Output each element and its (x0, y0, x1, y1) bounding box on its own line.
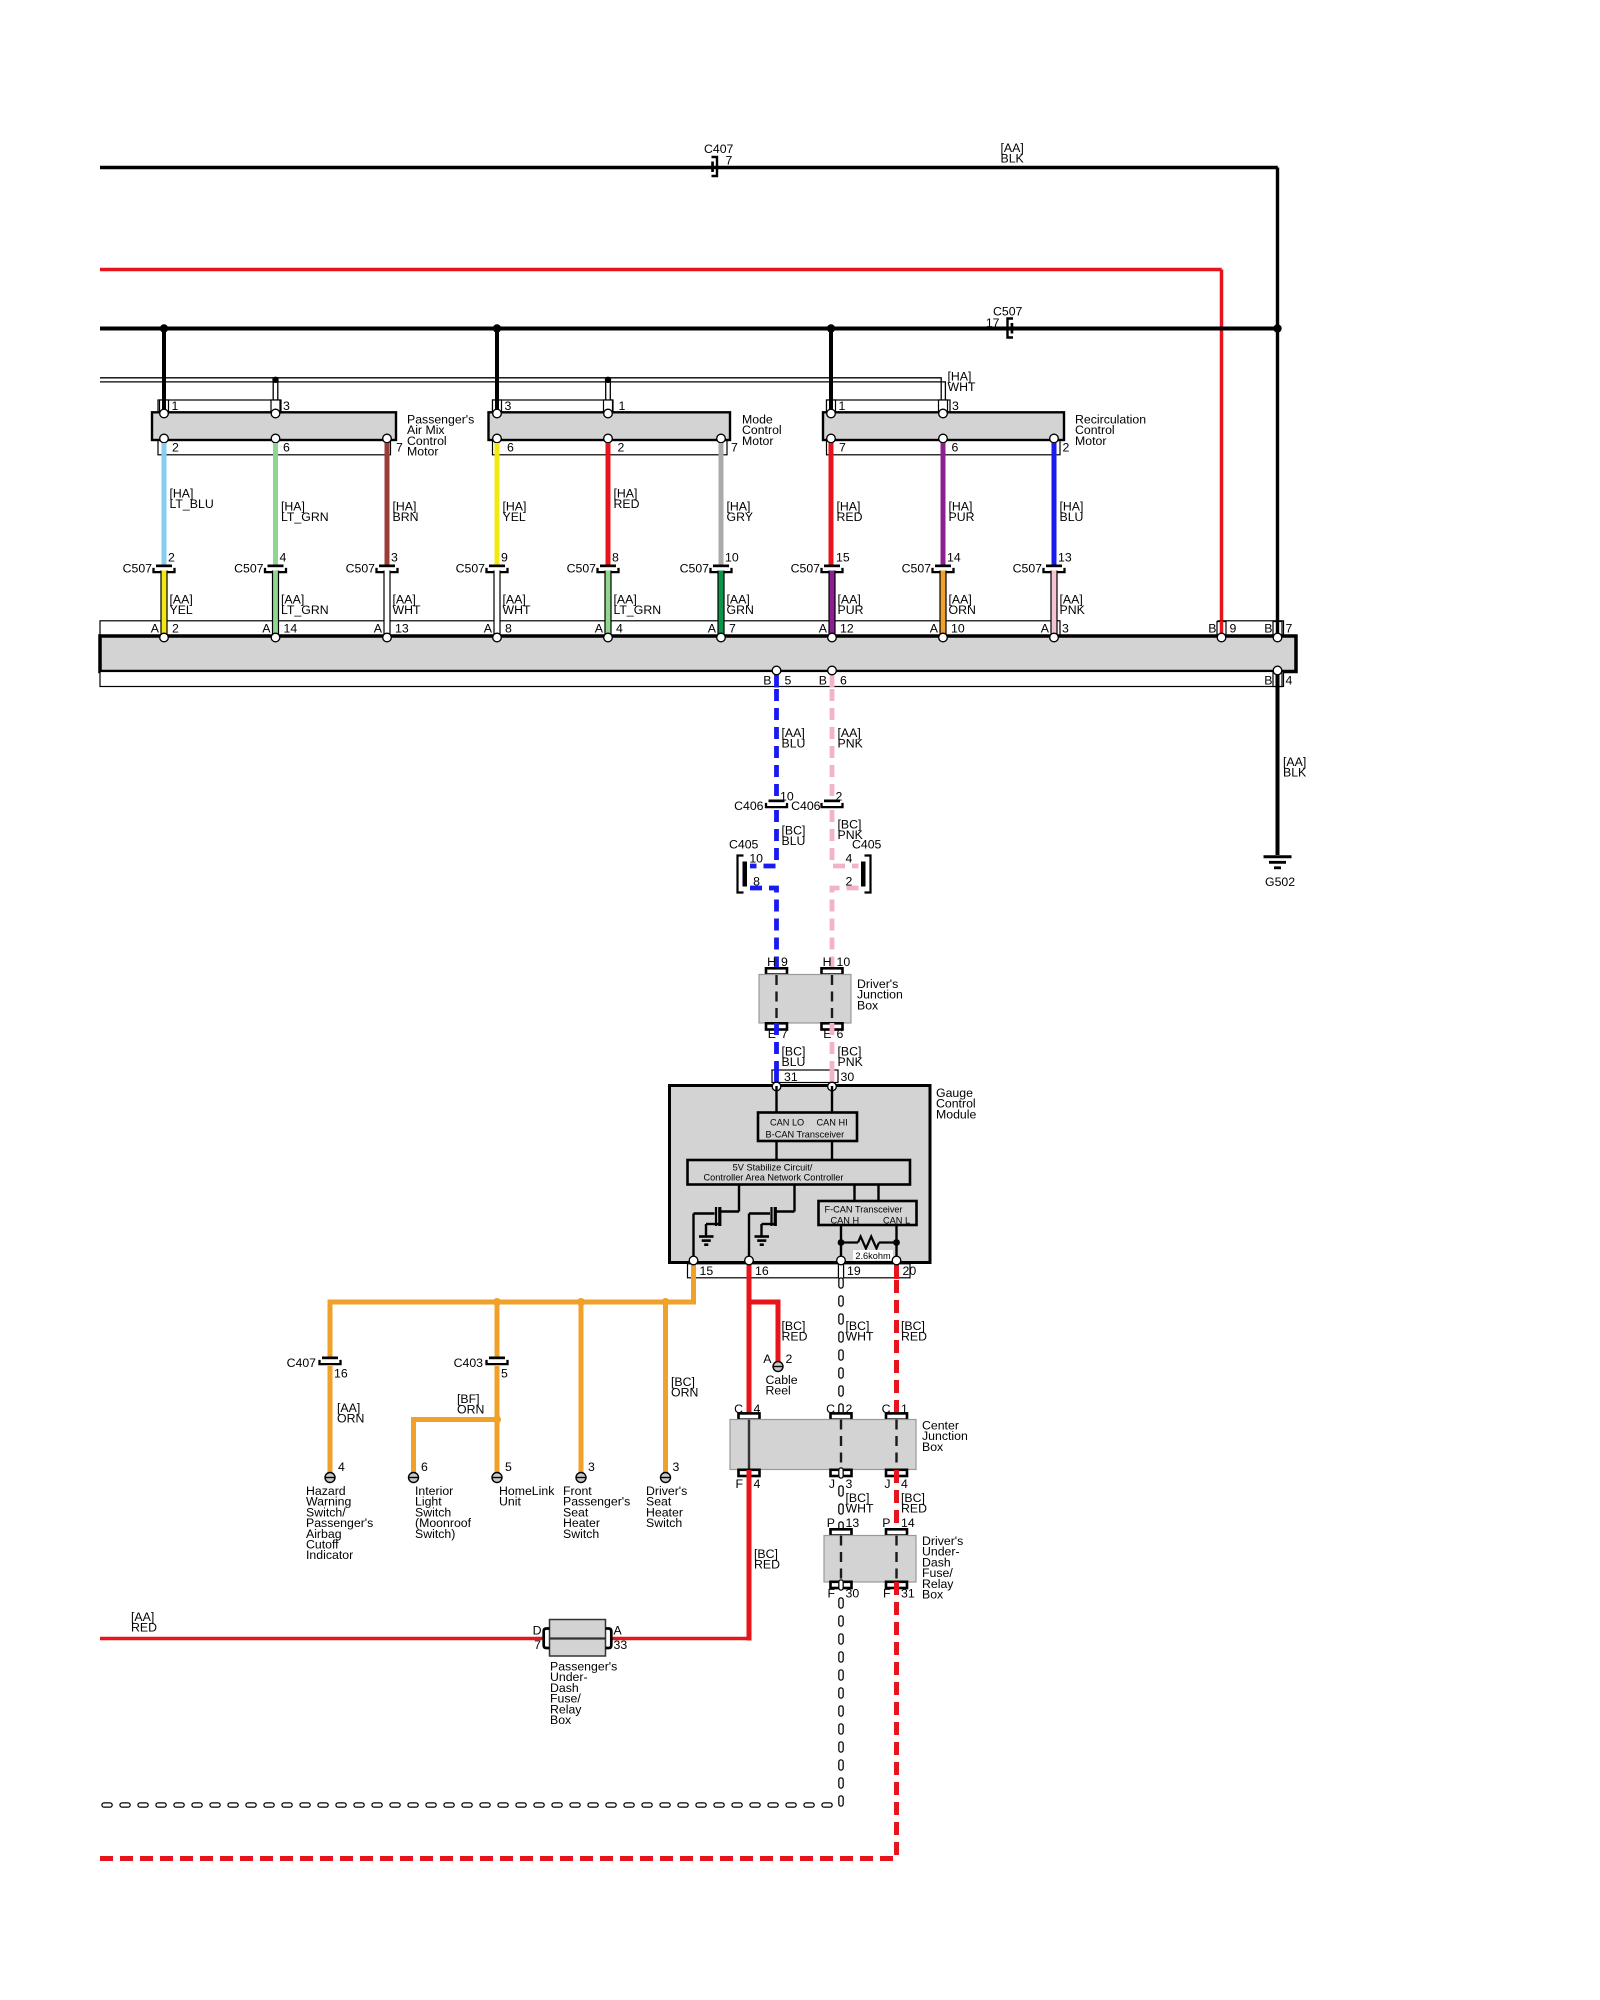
svg-text:PNK: PNK (1060, 603, 1086, 617)
motor M3 top pin strip (827, 400, 951, 413)
svg-text:10: 10 (951, 622, 965, 636)
svg-text:C406: C406 (791, 799, 821, 813)
motor M1 pin 1 rect (160, 400, 169, 413)
svg-text:B: B (1208, 622, 1216, 636)
motor pin circles (160, 409, 169, 418)
wire [BC] RED dashed J4 to P14 (894, 1470, 899, 1536)
wire B-CAN to 5V block right (831, 1141, 833, 1160)
wire [AA] PNK from C507 to bar pin A3 (1050, 571, 1057, 638)
svg-text:C: C (882, 1402, 891, 1416)
wire [AA] GRN from C507 to bar pin A7 (717, 571, 724, 638)
svg-text:A: A (595, 622, 604, 636)
terminal HomeLink pin 5 (492, 1473, 502, 1483)
connector C507 pin 2 (156, 565, 172, 568)
svg-text:13: 13 (395, 622, 409, 636)
svg-text:J: J (829, 1477, 835, 1491)
internal circuit D7-A33 (550, 1637, 605, 1639)
wire [AA] LT_GRN from C507 to bar pin A4 (604, 571, 611, 638)
svg-text:4: 4 (754, 1477, 761, 1491)
svg-text:Unit: Unit (499, 1495, 521, 1509)
pin tab C4 (739, 1413, 760, 1419)
svg-text:1: 1 (619, 399, 626, 413)
svg-text:B: B (1264, 622, 1272, 636)
svg-text:C507: C507 (791, 562, 821, 576)
svg-text:ORN: ORN (949, 603, 976, 617)
junction dot orange moonroof branch (493, 1416, 501, 1424)
connector C407 pin 7 inline on black feed (712, 157, 718, 176)
svg-text:PUR: PUR (838, 603, 864, 617)
wire black feed vertical drop to pin B7 (1276, 168, 1279, 638)
svg-text:C507: C507 (680, 562, 710, 576)
pin tab P13 (831, 1529, 852, 1535)
ground Q1 (699, 1235, 714, 1238)
svg-text:A: A (614, 1624, 623, 1638)
wire [BC] BLU dashed to C405 (750, 810, 777, 866)
svg-text:30: 30 (841, 1070, 855, 1084)
svg-text:C507: C507 (456, 562, 486, 576)
svg-text:3: 3 (673, 1460, 680, 1474)
svg-text:30: 30 (846, 1587, 860, 1601)
wire [BF] ORN below C403 (495, 1366, 500, 1473)
svg-text:Module: Module (936, 1107, 976, 1121)
svg-text:C507: C507 (234, 562, 264, 576)
svg-text:C507: C507 (346, 562, 376, 576)
svg-text:B: B (1264, 674, 1272, 688)
svg-text:BRN: BRN (393, 510, 419, 524)
svg-text:1: 1 (901, 1402, 908, 1416)
svg-text:C: C (734, 1402, 743, 1416)
svg-text:C406: C406 (734, 799, 764, 813)
junction dot thin pair to motor2 pin1 (605, 377, 611, 383)
wire [AA] RED feed (100, 268, 1222, 272)
svg-text:6: 6 (421, 1460, 428, 1474)
svg-text:Motor: Motor (1075, 434, 1106, 448)
wire [BC] PNK dashed E6 to module pin 30 (830, 1023, 835, 1068)
wire 5V block to Q1 drain (738, 1185, 740, 1212)
wire [BC] ORN drop to driver seat heater switch (663, 1302, 668, 1473)
module bottom pin strip (688, 1264, 911, 1278)
junction dot orange at driver seat heater drop (662, 1298, 670, 1306)
wire [BC] WHT dashed F30 off-page (102, 1582, 841, 1805)
svg-text:GRN: GRN (727, 603, 754, 617)
svg-text:YEL: YEL (503, 510, 526, 524)
connector C507 pin 15 (824, 565, 840, 568)
terminal driver seat heater pin 3 (661, 1473, 671, 1483)
svg-text:7: 7 (731, 441, 738, 455)
motor M2 bottom pin strip (493, 440, 728, 455)
wire [AA] BLU dashed from B5 (774, 671, 779, 688)
svg-text:14: 14 (947, 551, 961, 565)
motor M3 pin 1 rect (827, 400, 836, 413)
svg-text:C405: C405 (852, 838, 882, 852)
svg-text:ORN: ORN (457, 1403, 484, 1417)
B-CAN Transceiver block U1 (758, 1113, 857, 1142)
wire [AA] RED bottom feed (100, 1637, 544, 1641)
pin tab E7 (766, 1023, 787, 1029)
svg-text:3: 3 (283, 399, 290, 413)
svg-text:PUR: PUR (949, 510, 975, 524)
svg-text:WHT: WHT (393, 603, 421, 617)
svg-text:PNK: PNK (838, 737, 864, 751)
pin rect B9 (1217, 622, 1226, 636)
motor M1 bottom pin strip (158, 440, 391, 455)
ground G502 (1264, 855, 1292, 858)
svg-text:2: 2 (1063, 441, 1070, 455)
svg-text:5: 5 (785, 674, 792, 688)
transistor Q1 (694, 1212, 715, 1214)
internal dashed circuit C2-J3 (840, 1420, 842, 1470)
wire 5V block to F-CAN left (853, 1185, 855, 1202)
svg-text:Box: Box (922, 1440, 944, 1454)
connector C507 pin 17 inline on ground bus (1008, 319, 1014, 338)
svg-text:6: 6 (952, 441, 959, 455)
connector C507 pin 10 (713, 565, 729, 568)
wire pin30 to B-CAN (831, 1086, 833, 1113)
wire [AA] PNK dashed from B6 (830, 671, 835, 688)
svg-text:15: 15 (700, 1264, 714, 1278)
svg-text:8: 8 (612, 551, 619, 565)
svg-text:6: 6 (840, 674, 847, 688)
svg-text:10: 10 (837, 955, 851, 969)
wire pin 16 to Q2 gate (748, 1214, 750, 1262)
svg-text:2: 2 (836, 790, 843, 804)
svg-text:2: 2 (172, 441, 179, 455)
connector C507 pin 9 (489, 565, 505, 568)
junction dot bus drop motor1 (160, 324, 168, 332)
motor M1 Passenger's Air Mix Control Motor body (152, 412, 396, 440)
svg-text:2: 2 (172, 622, 179, 636)
bar pin circles bottom row (772, 666, 781, 675)
wire [AA] BLK top feed (100, 166, 1278, 169)
motor M1 pin 3 rect (271, 400, 280, 413)
svg-text:4: 4 (1286, 674, 1293, 688)
svg-text:WHT: WHT (846, 1330, 874, 1344)
svg-text:B: B (763, 674, 771, 688)
internal dashed circuit P13-F30 (840, 1536, 842, 1583)
pin tab F4 (739, 1470, 760, 1476)
pin tab H10 (822, 968, 843, 974)
svg-text:WHT: WHT (846, 1502, 874, 1516)
svg-text:1: 1 (839, 399, 846, 413)
wire red stub pin 16 (747, 1262, 752, 1279)
module pin circles bottom (689, 1256, 698, 1265)
svg-text:A: A (151, 622, 160, 636)
svg-text:Motor: Motor (742, 434, 773, 448)
svg-text:4: 4 (280, 551, 287, 565)
wire [HA] GRY (719, 443, 724, 565)
connector C407 pin 16 (322, 1357, 338, 1360)
connector C507 pin 13 (1046, 565, 1062, 568)
pin tab F30 (831, 1582, 852, 1588)
pin tab F31 (886, 1582, 907, 1588)
svg-text:RED: RED (131, 1621, 157, 1635)
wire B-CAN to 5V block left (775, 1141, 777, 1160)
wire [HA] YEL (495, 443, 500, 565)
svg-text:Box: Box (550, 1713, 572, 1727)
svg-text:A: A (484, 622, 493, 636)
svg-text:A: A (763, 1352, 772, 1366)
svg-text:13: 13 (1058, 551, 1072, 565)
wire CAN H to pin 19 (840, 1225, 842, 1261)
svg-text:A: A (819, 622, 828, 636)
svg-text:WHT: WHT (503, 603, 531, 617)
transistor Q2 (749, 1212, 770, 1214)
internal circuit C4-F4 (748, 1420, 750, 1470)
svg-text:2: 2 (618, 441, 625, 455)
svg-text:WHT: WHT (948, 380, 976, 394)
svg-text:3: 3 (391, 551, 398, 565)
svg-text:7: 7 (1286, 622, 1293, 636)
svg-text:9: 9 (1230, 622, 1237, 636)
wire CAN L to pin 20 (895, 1225, 897, 1261)
svg-text:Indicator: Indicator (306, 1548, 353, 1562)
svg-text:10: 10 (749, 852, 763, 866)
terminal hazard switch pin 4 (325, 1473, 335, 1483)
wire thin pair drop to motor2 pin1 (605, 378, 607, 400)
svg-text:Switch): Switch) (415, 1527, 455, 1541)
svg-text:C507: C507 (902, 562, 932, 576)
svg-text:CAN HI: CAN HI (817, 1118, 848, 1128)
junction dot ground bus at right vertical (1273, 324, 1281, 332)
svg-text:4: 4 (754, 1402, 761, 1416)
pin tab E6 (822, 1023, 843, 1029)
internal dashed circuit H9-E7 (775, 975, 777, 1023)
svg-text:A: A (708, 622, 717, 636)
svg-text:RED: RED (754, 1558, 780, 1572)
motor M1 top pin strip (158, 400, 281, 413)
svg-text:C507: C507 (567, 562, 597, 576)
svg-text:C507: C507 (1013, 562, 1043, 576)
wire pin31 to B-CAN (775, 1086, 777, 1113)
Gauge Control Module body (670, 1086, 931, 1263)
svg-text:14: 14 (284, 622, 298, 636)
svg-text:LT_GRN: LT_GRN (281, 510, 329, 524)
pin tab J4 (886, 1470, 907, 1476)
svg-text:3: 3 (588, 1460, 595, 1474)
junction dot thin pair to motor1 pin3 (272, 377, 278, 383)
svg-text:6: 6 (507, 441, 514, 455)
wire pin 15 to Q1 gate (692, 1214, 694, 1262)
svg-text:LT_BLU: LT_BLU (170, 497, 214, 511)
connector C405 left (pins 10/8) (738, 856, 744, 893)
svg-text:6: 6 (837, 1027, 844, 1041)
motor M2 pin 1 rect (604, 400, 613, 413)
wire bus drop to motor1 pin1 (162, 330, 166, 413)
wire red feed vertical drop to pin B9 (1220, 270, 1224, 638)
svg-text:BLK: BLK (1001, 152, 1025, 166)
motor M2 pin 3 rect (493, 400, 502, 413)
pin tab P14 (886, 1529, 907, 1535)
svg-text:C: C (826, 1402, 835, 1416)
svg-text:4: 4 (901, 1477, 908, 1491)
svg-text:BLU: BLU (1060, 510, 1084, 524)
wire [AA] WHT from C507 to bar pin A8 (493, 571, 500, 638)
svg-text:4: 4 (846, 852, 853, 866)
wire [BC] BLU dashed from C405 to H9 (750, 888, 777, 975)
wire orange branch to interior light switch (414, 1420, 498, 1473)
svg-text:LT_GRN: LT_GRN (614, 603, 662, 617)
svg-text:RED: RED (901, 1502, 927, 1516)
svg-text:13: 13 (846, 1516, 860, 1530)
pin rect B7 (1273, 622, 1282, 636)
svg-text:20: 20 (903, 1264, 917, 1278)
Passenger's Under-Dash Fuse/Relay Box body (550, 1620, 606, 1657)
connector C507 pin 14 (935, 565, 951, 568)
wire [BC] WHT dashed pin 19 to C2 (838, 1280, 844, 1419)
wire 5V block to F-CAN right (877, 1185, 879, 1202)
svg-text:J: J (884, 1477, 890, 1491)
svg-text:2: 2 (846, 1402, 853, 1416)
svg-text:19: 19 (847, 1264, 861, 1278)
svg-text:RED: RED (901, 1330, 927, 1344)
wire orange drop to C403 (495, 1302, 500, 1357)
wire pink stub into pin 30 (830, 1068, 835, 1086)
svg-text:10: 10 (725, 551, 739, 565)
ground Q2 (755, 1235, 770, 1238)
motor M3 pin 3 rect (939, 400, 948, 413)
wire black ground bus (100, 327, 1278, 331)
svg-text:7: 7 (839, 441, 846, 455)
svg-text:RED: RED (782, 1330, 808, 1344)
pin tab C1 (886, 1413, 907, 1419)
svg-text:C405: C405 (729, 838, 759, 852)
terminal front seat heater pin 3 (576, 1473, 586, 1483)
svg-text:31: 31 (784, 1070, 798, 1084)
svg-text:5: 5 (501, 1367, 508, 1381)
svg-text:Switch: Switch (563, 1527, 599, 1541)
wire [BC] BLU dashed E7 to module pin 31 (774, 1023, 779, 1068)
module top pin strip (772, 1070, 838, 1083)
svg-text:2.6kohm: 2.6kohm (855, 1251, 891, 1261)
svg-text:C507: C507 (123, 562, 153, 576)
svg-text:5V Stabilize Circuit/: 5V Stabilize Circuit/ (733, 1163, 813, 1173)
svg-text:F: F (827, 1587, 835, 1601)
wire blue stub into pin 31 (774, 1068, 779, 1086)
svg-text:3: 3 (846, 1477, 853, 1491)
svg-text:H: H (767, 955, 776, 969)
svg-text:ORN: ORN (671, 1386, 698, 1400)
bar pin circles top row (160, 633, 169, 642)
svg-text:BLK: BLK (1283, 766, 1307, 780)
A-row pin band of dash harness connector (100, 621, 1060, 636)
svg-text:16: 16 (334, 1367, 348, 1381)
wire black through pin B4 (1276, 671, 1280, 688)
svg-text:RED: RED (614, 497, 640, 511)
wire thin pair drop to motor1 pin3 (272, 378, 274, 400)
svg-text:2: 2 (786, 1352, 793, 1366)
svg-text:BLU: BLU (782, 834, 806, 848)
svg-text:3: 3 (505, 399, 512, 413)
svg-text:G502: G502 (1265, 875, 1295, 889)
svg-text:Controller Area Network Contro: Controller Area Network Controller (704, 1173, 844, 1183)
motor M2 Mode Control Motor body (489, 412, 731, 440)
svg-text:14: 14 (901, 1516, 915, 1530)
wire white stub pin 19 (838, 1262, 844, 1279)
svg-text:3: 3 (1062, 622, 1069, 636)
svg-text:31: 31 (901, 1587, 915, 1601)
svg-text:C407: C407 (287, 1356, 317, 1370)
svg-text:8: 8 (505, 622, 512, 636)
svg-text:5: 5 (505, 1460, 512, 1474)
wire orange stub pin 15 (691, 1262, 696, 1279)
B-row bottom pin band (100, 672, 1284, 687)
pin bracket A33 (606, 1629, 612, 1649)
svg-text:BLU: BLU (782, 1055, 806, 1069)
wire red branch to cable reel (749, 1302, 778, 1362)
Driver's Junction Box body (759, 975, 851, 1024)
Driver's Under-Dash Fuse/Relay Box body (824, 1536, 916, 1583)
internal dashed circuit C1-J4 (895, 1420, 897, 1470)
wire [BC] RED dashed F31 off-page (100, 1582, 897, 1859)
wire [AA] YEL from C507 to bar pin A2 (160, 571, 167, 638)
svg-text:Switch: Switch (646, 1516, 682, 1530)
svg-text:9: 9 (781, 955, 788, 969)
svg-text:CAN LO: CAN LO (770, 1118, 804, 1128)
svg-text:4: 4 (616, 622, 623, 636)
wire [BC] PNK dashed to C405 (832, 810, 859, 866)
F-CAN Transceiver block U3 (819, 1201, 917, 1225)
svg-text:P: P (882, 1516, 890, 1530)
connector C507 pin 3 (379, 565, 395, 568)
wire [AA] ORN to hazard switch (328, 1366, 333, 1473)
svg-text:A: A (374, 622, 383, 636)
junction dot bus drop motor2 (493, 324, 501, 332)
motor M3 Recirculation Control Motor body (823, 412, 1064, 440)
svg-text:F: F (883, 1587, 891, 1601)
terminal interior light switch pin 6 (409, 1473, 419, 1483)
wire [HA] LT_GRN (273, 443, 278, 565)
connector C507 pin 8 (600, 565, 616, 568)
svg-text:33: 33 (614, 1638, 628, 1652)
svg-text:YEL: YEL (170, 603, 193, 617)
wire red feed through pin B9 (1220, 621, 1224, 638)
wire [HA] PUR (941, 443, 946, 565)
svg-text:BLU: BLU (782, 737, 806, 751)
svg-text:D: D (533, 1624, 542, 1638)
svg-text:C403: C403 (454, 1356, 484, 1370)
wire [AA] ORN from C507 to bar pin A10 (939, 571, 946, 638)
Center Junction Box body (730, 1420, 916, 1470)
svg-text:A: A (262, 622, 271, 636)
connector C406 pin 10 (blue) (769, 800, 785, 803)
svg-text:P: P (827, 1516, 835, 1530)
svg-text:B: B (819, 674, 827, 688)
junction dot bus drop motor3 (827, 324, 835, 332)
pin tab J3 (831, 1470, 852, 1476)
pin bracket D7 (544, 1629, 550, 1649)
svg-text:12: 12 (840, 622, 854, 636)
svg-text:6: 6 (283, 441, 290, 455)
svg-text:3: 3 (952, 399, 959, 413)
svg-text:2: 2 (168, 551, 175, 565)
5V Stabilize / CAN Controller block U2 (688, 1160, 911, 1185)
svg-text:A: A (930, 622, 939, 636)
internal dashed circuit H10-E6 (831, 975, 833, 1023)
svg-text:LT_GRN: LT_GRN (281, 603, 329, 617)
connector C405 right (pins 4/2) (865, 856, 871, 893)
svg-text:Motor: Motor (407, 445, 438, 459)
svg-text:7: 7 (729, 622, 736, 636)
wire [BC] RED dashed pin 20 to C1 (894, 1280, 899, 1419)
svg-text:17: 17 (986, 316, 1000, 330)
svg-text:Box: Box (922, 1588, 944, 1602)
wire [AA] WHT from C507 to bar pin A13 (383, 571, 390, 638)
svg-text:B-CAN Transceiver: B-CAN Transceiver (766, 1130, 845, 1140)
svg-text:H: H (823, 955, 832, 969)
wire [HA] RED (829, 443, 834, 565)
wire [HA] BLU (1052, 443, 1057, 565)
svg-text:Box: Box (857, 998, 879, 1012)
